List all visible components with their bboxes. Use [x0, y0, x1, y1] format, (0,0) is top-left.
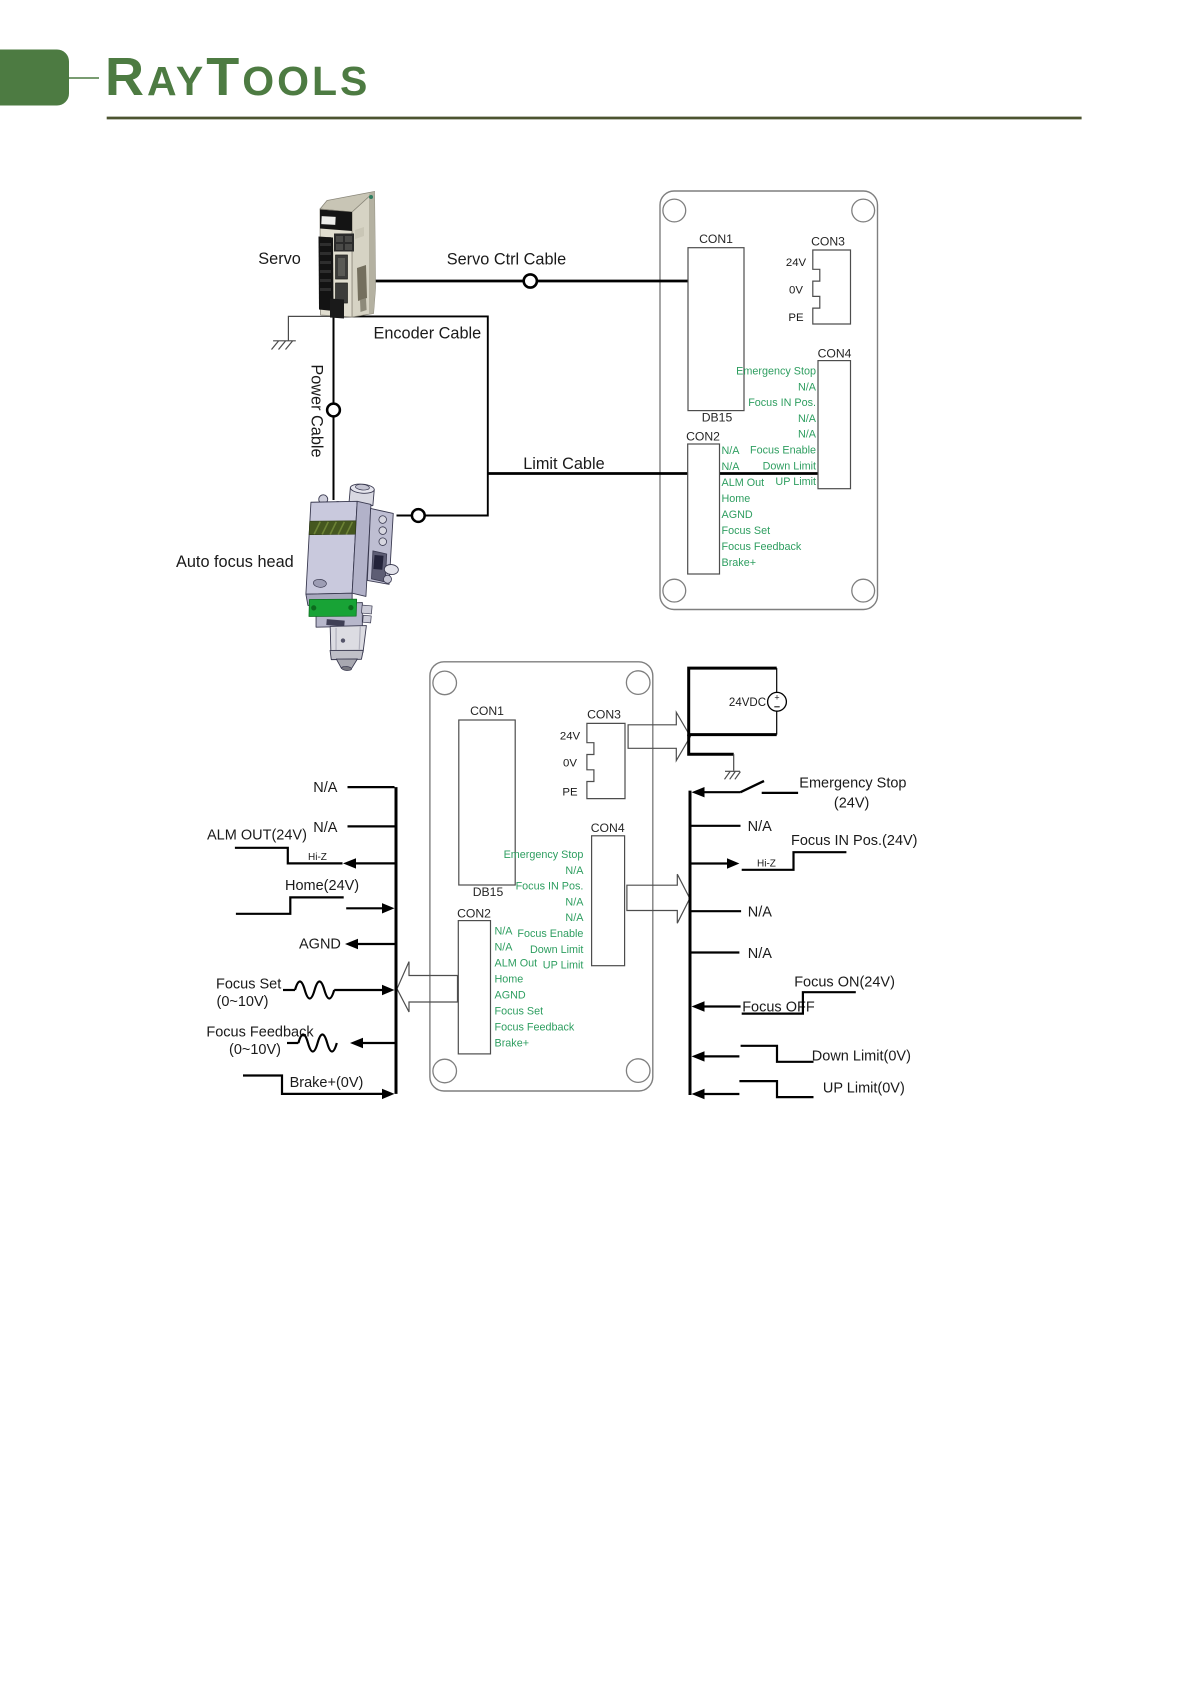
outline arrow: left bus to CON2	[397, 962, 458, 1012]
small black blocks row (switch area)	[334, 234, 354, 252]
svg-text:Auto focus head: Auto focus head	[176, 553, 294, 571]
svg-text:N/A: N/A	[495, 926, 514, 938]
green dot top right	[369, 195, 373, 199]
dark stripe on body	[309, 517, 357, 539]
white label on band	[321, 216, 335, 225]
green band	[308, 595, 358, 621]
tail to ground	[689, 735, 734, 755]
svg-text:Hi-Z: Hi-Z	[308, 852, 327, 863]
panel 2 hole bottom-right	[626, 1059, 650, 1083]
row: Down Limit	[692, 1051, 705, 1061]
svg-text:UP Limit: UP Limit	[543, 960, 584, 972]
row: UP Limit	[692, 1089, 705, 1099]
ALM arrow from bus (points left)	[354, 862, 395, 864]
Focus Set sine	[283, 989, 295, 991]
right bus	[689, 791, 692, 1095]
top collar cylinder	[349, 488, 374, 506]
row: Emergency Stop with switch	[692, 787, 705, 797]
stripe hatch	[314, 519, 352, 538]
svg-text:Focus IN Pos.: Focus IN Pos.	[516, 881, 584, 893]
left black connector column	[319, 237, 334, 312]
logo connector line	[69, 77, 99, 79]
right side assembly	[364, 508, 395, 584]
svg-text:PE: PE	[788, 312, 804, 324]
svg-text:N/A: N/A	[313, 820, 338, 836]
DIAGRAM 2	[206, 662, 917, 1099]
lower block behind green band	[314, 599, 364, 632]
middle connectors	[336, 255, 348, 279]
row: N/A 2	[348, 825, 395, 827]
svg-text:Brake+: Brake+	[495, 1038, 530, 1050]
svg-text:Focus IN Pos.(24V): Focus IN Pos.(24V)	[791, 833, 918, 849]
front black display band	[320, 210, 352, 232]
svg-text:0V: 0V	[563, 758, 577, 770]
row: N/A r3	[692, 951, 740, 953]
svg-text:UP Limit: UP Limit	[775, 476, 816, 488]
panel 2 hole top-left	[433, 671, 457, 695]
main body right column	[349, 501, 374, 596]
Focus Feedback sine	[287, 1042, 298, 1044]
svg-text:DB15: DB15	[702, 411, 733, 425]
ALM waveform step-down	[235, 848, 343, 864]
connector CON3 (panel 2) with notched left edge	[587, 723, 625, 798]
Down Limit waveform step-down	[741, 1046, 814, 1062]
connector CON1 (panel 2)	[459, 720, 515, 885]
connection board panel 2	[430, 662, 653, 1091]
side face right dark strip	[369, 192, 376, 315]
svg-text:CON1: CON1	[470, 704, 504, 718]
nozzle cone	[336, 657, 358, 670]
svg-text:AGND: AGND	[722, 509, 753, 521]
connector CON1 (panel 1)	[688, 248, 744, 411]
svg-text:Down Limit: Down Limit	[530, 944, 583, 956]
svg-text:24VDC: 24VDC	[729, 697, 766, 709]
right edge thin with source circle	[776, 668, 778, 692]
svg-text:Focus Enable: Focus Enable	[517, 928, 583, 940]
header underline	[107, 117, 1082, 120]
dark window in side assembly	[370, 551, 388, 582]
logo green rounded block	[0, 50, 69, 106]
svg-text:ALM OUT(24V): ALM OUT(24V)	[207, 828, 307, 844]
lower ring	[329, 647, 363, 662]
svg-text:Down Limit(0V): Down Limit(0V)	[812, 1049, 911, 1065]
svg-text:CON4: CON4	[591, 821, 625, 835]
svg-text:Emergency Stop: Emergency Stop	[799, 776, 906, 792]
wire: power cable vertical	[333, 310, 335, 500]
tiny marks left of blocks	[322, 237, 326, 241]
svg-text:Emergency Stop: Emergency Stop	[736, 366, 816, 378]
svg-text:Down Limit: Down Limit	[763, 460, 816, 472]
svg-text:(0~10V): (0~10V)	[229, 1042, 281, 1058]
auto focus head image	[297, 480, 406, 674]
svg-text:N/A: N/A	[565, 912, 584, 924]
svg-text:Focus Set: Focus Set	[216, 977, 281, 993]
svg-text:Home(24V): Home(24V)	[285, 878, 359, 894]
side bolts	[379, 515, 387, 523]
connector circle on power cable	[327, 404, 340, 417]
svg-text:CON2: CON2	[457, 907, 491, 921]
svg-text:24V: 24V	[560, 731, 581, 743]
dark label under band	[326, 619, 344, 627]
wire: encoder cable run	[334, 316, 488, 515]
Brake waveform step-down	[243, 1076, 345, 1094]
24VDC supply box	[689, 668, 787, 779]
Focus OFF waveform step-up	[742, 992, 856, 1013]
svg-text:CON3: CON3	[811, 235, 845, 249]
panel 2 hole top-right	[626, 671, 650, 695]
svg-text:Home: Home	[495, 974, 524, 986]
outline arrow: CON3 to 24VDC	[628, 712, 690, 760]
svg-text:CON4: CON4	[818, 347, 852, 361]
svg-text:24V: 24V	[786, 257, 807, 269]
svg-text:N/A: N/A	[722, 461, 741, 473]
CON2 pin names (green, left aligned)	[722, 445, 802, 569]
svg-text:+: +	[774, 693, 779, 703]
servo body top face	[320, 192, 375, 213]
svg-text:(0~10V): (0~10V)	[217, 994, 269, 1010]
svg-text:Brake+(0V): Brake+(0V)	[290, 1075, 364, 1091]
Focus IN waveform step-up	[742, 852, 847, 870]
row: N/A r2	[692, 910, 742, 912]
svg-text:Servo Ctrl Cable: Servo Ctrl Cable	[447, 251, 566, 269]
UP Limit waveform step-down	[739, 1081, 813, 1097]
LEFT SIDE ROWS	[206, 780, 394, 1099]
svg-text:Encoder Cable: Encoder Cable	[374, 325, 482, 343]
side face vents/slots	[357, 265, 367, 301]
svg-text:AGND: AGND	[495, 990, 526, 1002]
svg-text:Servo: Servo	[258, 250, 301, 268]
svg-text:AGND: AGND	[299, 937, 341, 953]
svg-text:PE: PE	[562, 787, 578, 799]
connector circle on encoder run bottom	[412, 509, 425, 522]
svg-text:N/A: N/A	[748, 819, 773, 835]
svg-text:Focus IN Pos.: Focus IN Pos.	[748, 397, 816, 409]
left bus	[395, 787, 398, 1094]
thick U (top, left, bottom)	[689, 668, 777, 735]
row: N/A 1	[348, 786, 395, 788]
svg-text:Focus Feedback: Focus Feedback	[722, 541, 802, 553]
svg-text:Focus Enable: Focus Enable	[750, 445, 816, 457]
svg-text:Emergency Stop: Emergency Stop	[504, 849, 584, 861]
ground symbol (earth)	[272, 341, 296, 350]
DIAGRAM 1	[176, 191, 878, 674]
svg-text:Focus Set: Focus Set	[495, 1006, 544, 1018]
svg-text:Power Cable: Power Cable	[308, 364, 326, 457]
CON2 pin names (panel 2, green, left aligned)	[495, 926, 575, 1050]
connector CON2 (panel 2)	[458, 921, 490, 1054]
svg-text:Focus Set: Focus Set	[722, 525, 771, 537]
Home waveform step-up	[236, 897, 344, 913]
bottom bevel of body	[305, 589, 354, 613]
panel 1 hole bottom-right	[852, 579, 875, 602]
svg-text:N/A: N/A	[313, 780, 338, 796]
svg-text:Home: Home	[722, 493, 751, 505]
svg-text:Hi-Z: Hi-Z	[757, 859, 776, 870]
svg-text:N/A: N/A	[798, 413, 817, 425]
panel 1 hole top-left	[663, 199, 686, 222]
connector CON3 (panel 1) with notched left edge	[813, 250, 851, 324]
panel 1 hole top-right	[852, 199, 875, 222]
svg-text:(24V): (24V)	[834, 796, 869, 812]
servo body side face	[352, 192, 376, 318]
svg-text:DB15: DB15	[473, 885, 504, 899]
cylinder (nozzle holder)	[328, 622, 366, 655]
svg-text:N/A: N/A	[798, 429, 817, 441]
servo drive image	[319, 192, 376, 319]
svg-text:Brake+: Brake+	[722, 557, 757, 569]
CON4 pin names (panel 2, green, right aligned)	[504, 849, 585, 972]
svg-text:0V: 0V	[789, 285, 803, 297]
main body front face	[303, 497, 360, 598]
wire: servo ctrl cable	[375, 280, 688, 283]
bottom black blob	[330, 299, 344, 319]
svg-text:N/A: N/A	[748, 905, 773, 921]
svg-text:CON2: CON2	[686, 430, 720, 444]
connector CON2 (panel 1)	[688, 444, 720, 574]
RIGHT SIDE ROWS	[692, 776, 918, 1100]
small fittings right of band	[361, 605, 372, 614]
svg-text:N/A: N/A	[495, 942, 514, 954]
servo body front face	[320, 209, 352, 317]
DC source circle	[768, 692, 787, 711]
HEADER	[0, 47, 1082, 118]
ground symbol	[725, 771, 741, 779]
CON4 pin names (green, right aligned)	[736, 366, 817, 489]
Home arrow to bus (points right)	[346, 907, 384, 909]
svg-text:CON1: CON1	[699, 232, 733, 246]
switch blade	[741, 781, 765, 792]
svg-text:N/A: N/A	[565, 865, 584, 877]
panel 1 hole bottom-left	[663, 579, 686, 602]
side knob/handle	[384, 564, 399, 575]
svg-text:Focus Feedback: Focus Feedback	[206, 1025, 314, 1041]
connector CON4 (panel 1)	[818, 361, 851, 489]
svg-text:UP Limit(0V): UP Limit(0V)	[823, 1081, 905, 1097]
svg-text:Focus Feedback: Focus Feedback	[495, 1022, 575, 1034]
outline arrow: CON4 to right bus	[627, 874, 690, 923]
connector CON4 (panel 2)	[592, 836, 625, 966]
svg-text:ALM Out: ALM Out	[495, 958, 538, 970]
svg-text:N/A: N/A	[748, 946, 773, 962]
svg-text:N/A: N/A	[722, 445, 741, 457]
svg-text:CON3: CON3	[587, 708, 621, 722]
svg-text:ALM Out: ALM Out	[722, 477, 765, 489]
row: N/A r1	[692, 825, 741, 827]
svg-text:N/A: N/A	[565, 896, 584, 908]
svg-text:Focus ON(24V): Focus ON(24V)	[794, 975, 895, 991]
wire: ground branch from servo	[288, 316, 333, 340]
logo swirl	[313, 579, 327, 588]
svg-text:Limit Cable: Limit Cable	[523, 455, 604, 473]
top bolts	[318, 494, 328, 504]
panel 2 hole bottom-left	[433, 1059, 457, 1083]
svg-text:N/A: N/A	[798, 381, 817, 393]
wire: limit cable	[488, 472, 818, 475]
connection board panel 1	[660, 191, 878, 610]
connector circle on servo ctrl cable	[524, 274, 537, 287]
